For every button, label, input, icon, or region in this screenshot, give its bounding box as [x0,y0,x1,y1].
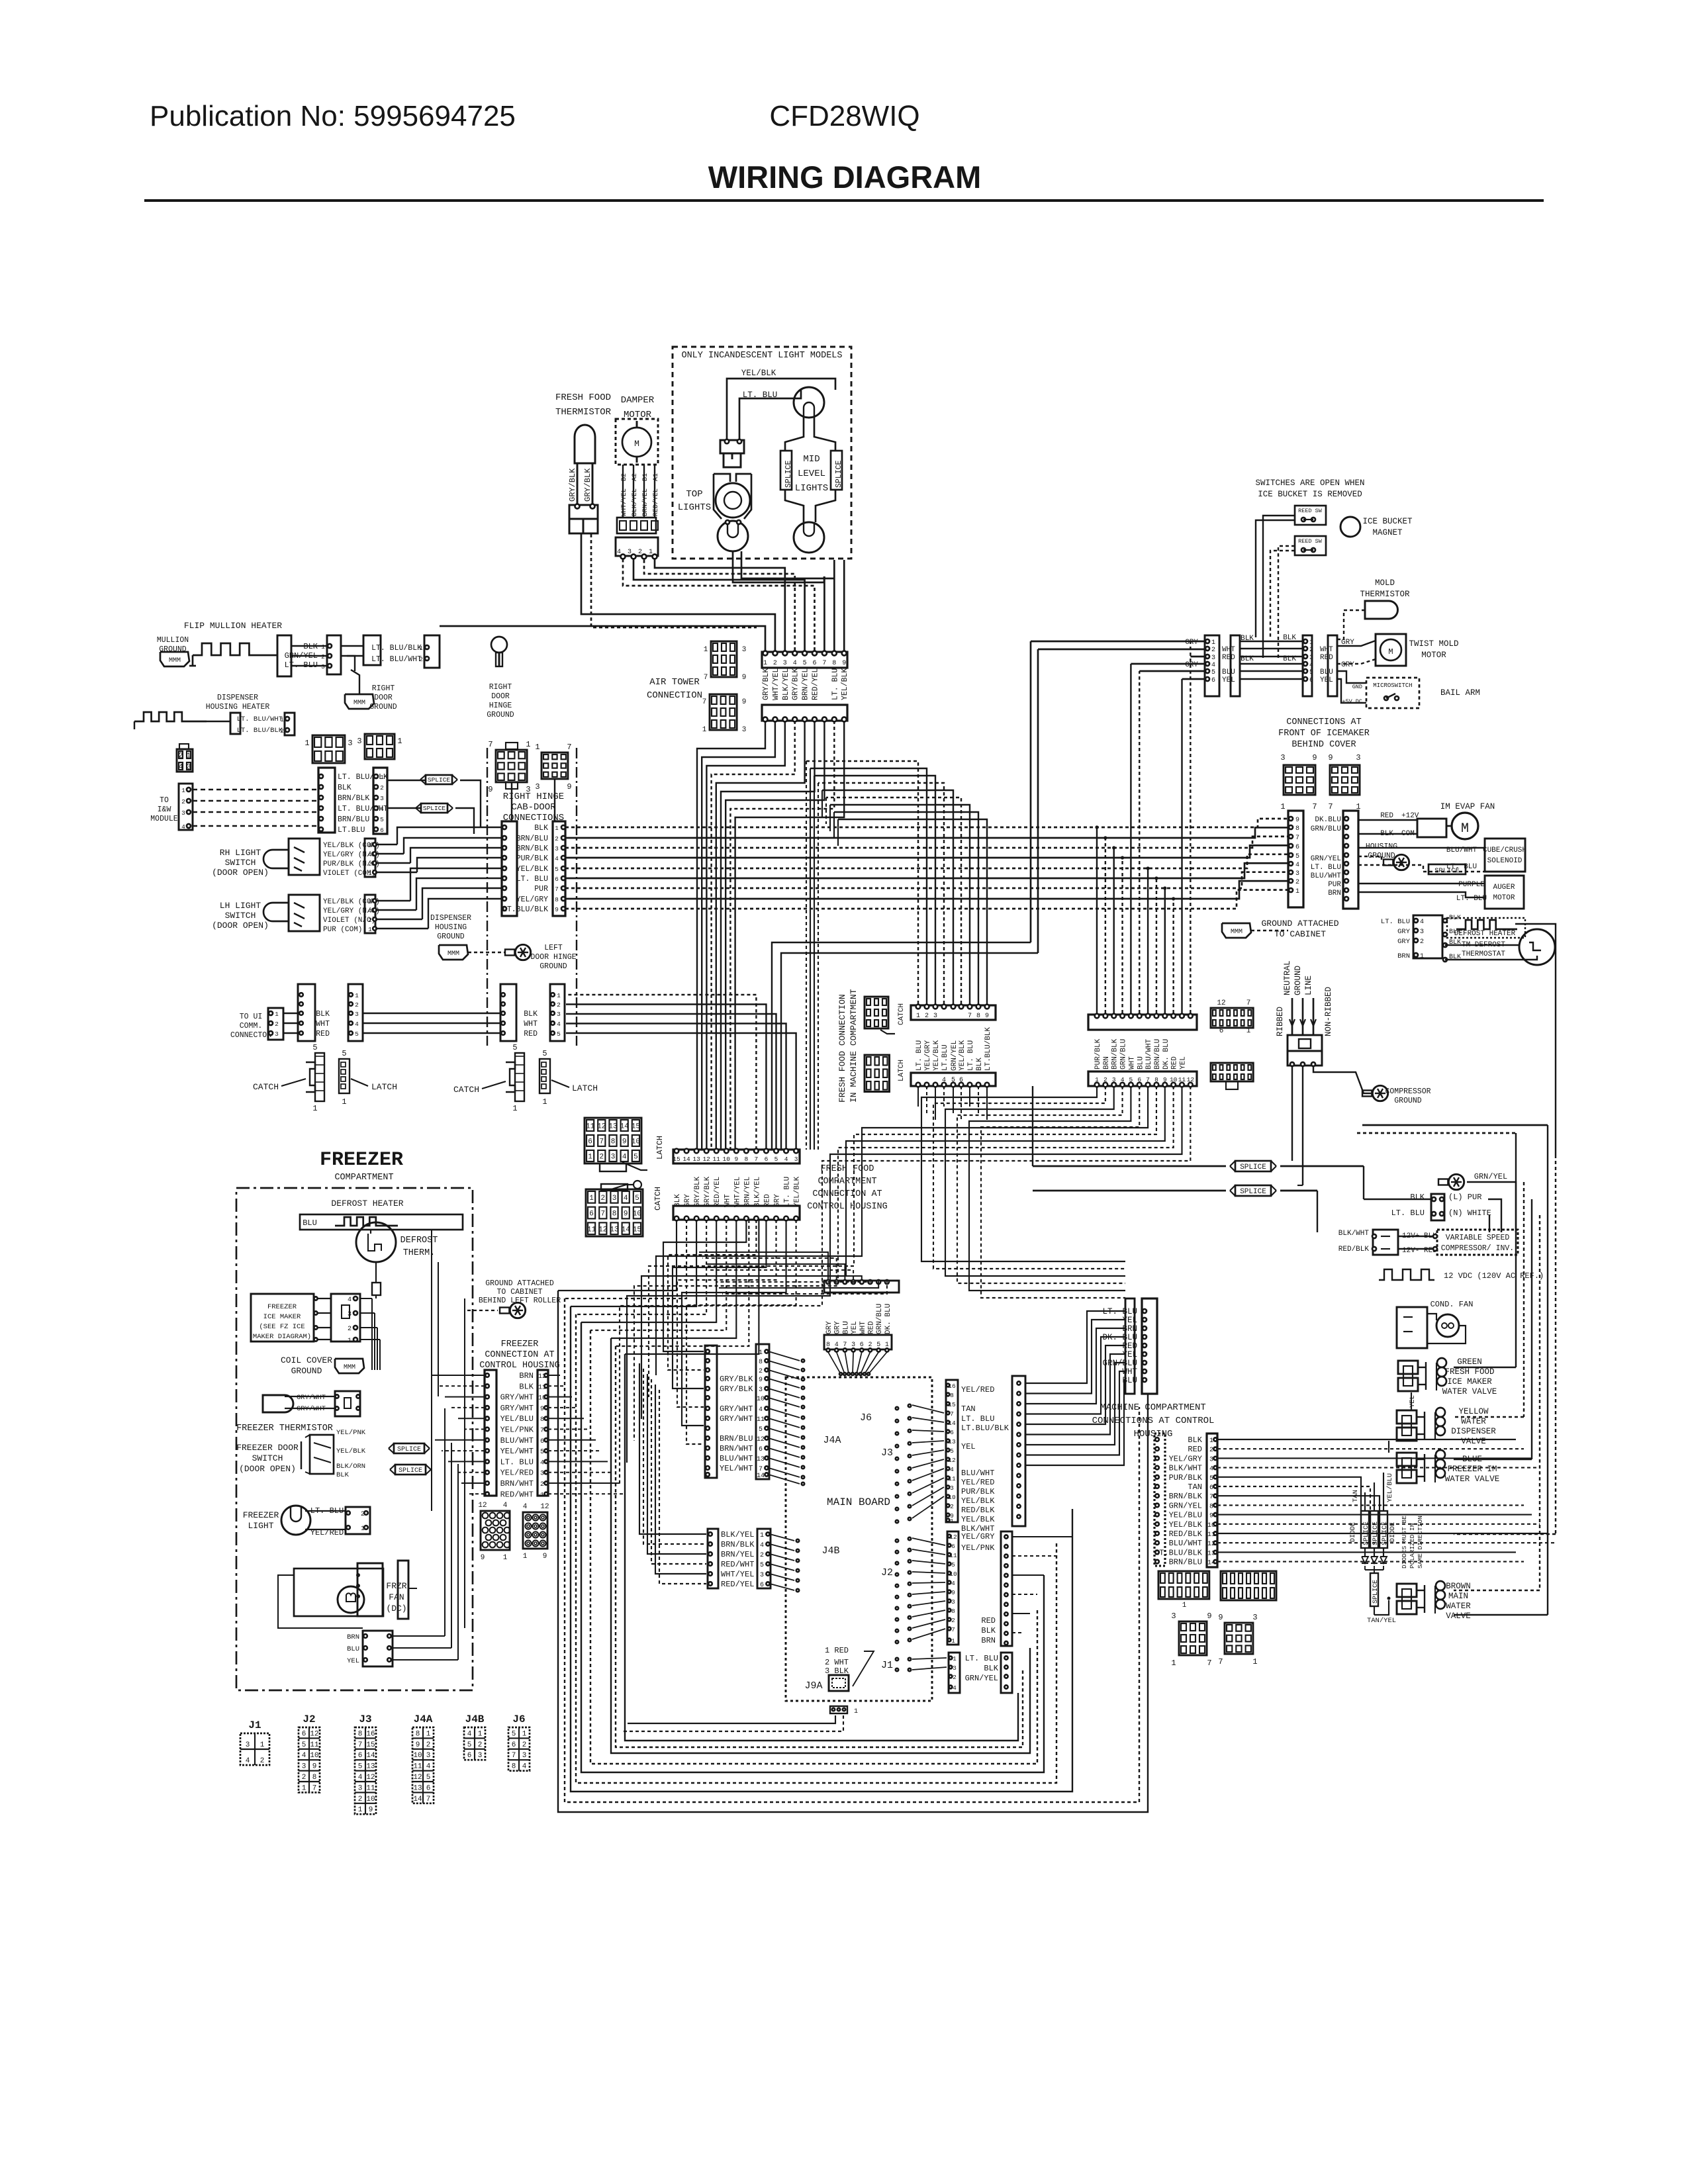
svg-text:9: 9 [1295,817,1299,824]
svg-text:ICE MAKER: ICE MAKER [263,1313,301,1321]
svg-text:6: 6 [512,1741,516,1749]
svg-text:CFD28WIQ: CFD28WIQ [769,100,919,132]
svg-text:RED/YEL: RED/YEL [812,668,820,700]
svg-text:WATER: WATER [1461,1417,1486,1426]
svg-text:CONNECTOR: CONNECTOR [230,1031,271,1040]
svg-text:J4B: J4B [821,1545,839,1557]
svg-text:COMPRESSOR: COMPRESSOR [1385,1087,1430,1096]
svg-text:6: 6 [1211,677,1215,684]
svg-text:(DOOR OPEN): (DOOR OPEN) [212,921,269,931]
svg-text:4: 4 [617,549,621,556]
svg-text:BLK/WHT: BLK/WHT [1338,1230,1370,1238]
svg-text:10: 10 [757,1396,765,1403]
svg-text:M: M [634,439,639,449]
svg-text:CONTROL HOUSING: CONTROL HOUSING [807,1202,888,1212]
svg-text:9: 9 [951,1589,955,1596]
svg-text:GRY/BLK: GRY/BLK [583,468,592,502]
svg-text:FRONT OF ICEMAKER: FRONT OF ICEMAKER [1278,729,1370,739]
svg-text:2: 2 [599,1154,604,1161]
svg-text:BLU/WHT: BLU/WHT [720,1454,753,1463]
svg-text:LT. BLU: LT. BLU [500,1457,534,1467]
svg-text:1: 1 [397,737,402,746]
svg-text:WHT: WHT [1128,1056,1136,1069]
svg-text:3: 3 [357,737,361,746]
svg-text:3: 3 [1209,1456,1213,1463]
svg-text:8: 8 [976,1013,980,1020]
svg-text:7: 7 [1209,1494,1213,1501]
svg-text:1: 1 [302,1784,306,1792]
svg-text:3: 3 [557,1011,561,1018]
svg-text:LT.BLU/BLK: LT.BLU/BLK [502,905,548,914]
svg-text:1: 1 [1182,1602,1187,1610]
svg-text:YEL/BLK: YEL/BLK [933,1040,941,1071]
svg-text:YEL: YEL [961,1442,976,1451]
svg-text:CONNECTIONS AT: CONNECTIONS AT [1286,717,1361,727]
svg-text:9: 9 [985,1013,989,1020]
svg-text:PUR/BLK: PUR/BLK [1169,1473,1203,1482]
svg-text:2: 2 [348,1326,352,1333]
svg-text:1: 1 [1095,1076,1099,1083]
svg-text:RED/BLK: RED/BLK [961,1506,995,1515]
svg-text:RED/BLK: RED/BLK [1169,1529,1203,1539]
svg-text:4: 4 [348,1297,352,1304]
svg-text:J1: J1 [881,1660,893,1671]
svg-text:2: 2 [280,728,283,735]
svg-text:11: 11 [366,1784,375,1792]
svg-text:PUR/BLK: PUR/BLK [516,854,548,863]
svg-text:2: 2 [321,653,325,660]
svg-text:WHT: WHT [524,1020,538,1028]
svg-text:LT. BLU: LT. BLU [831,668,839,700]
svg-text:GRN/YEL: GRN/YEL [951,1040,959,1071]
svg-text:YEL/RED: YEL/RED [961,1478,994,1487]
svg-text:YEL/BLU: YEL/BLU [1169,1511,1202,1520]
svg-text:J4B: J4B [465,1713,485,1725]
svg-text:TO CABINET: TO CABINET [496,1288,542,1297]
svg-text:BLK/YEL: BLK/YEL [753,1177,761,1207]
svg-text:CATCH: CATCH [453,1085,479,1095]
svg-text:12: 12 [478,1502,487,1510]
svg-text:GRY: GRY [1185,661,1198,669]
svg-text:GRY/BLK: GRY/BLK [704,1176,712,1207]
svg-text:GRY/BLK: GRY/BLK [720,1375,753,1384]
svg-text:SPLICE: SPLICE [1434,867,1460,875]
svg-text:2: 2 [950,1503,954,1510]
svg-text:4: 4 [1309,662,1313,669]
svg-text:WHT/YEL: WHT/YEL [620,488,628,516]
svg-text:LEVEL: LEVEL [798,469,825,479]
svg-text:5: 5 [760,1562,764,1569]
svg-text:3: 3 [1112,1076,1116,1083]
svg-text:COND. FAN: COND. FAN [1430,1300,1474,1309]
svg-text:GRN/BLU: GRN/BLU [1311,825,1341,833]
svg-text:AIR TOWER: AIR TOWER [649,677,700,688]
svg-text:BRN/WHT: BRN/WHT [500,1479,534,1488]
svg-text:1: 1 [305,739,309,748]
svg-text:3: 3 [321,663,325,670]
svg-text:RED/WHT: RED/WHT [500,1490,534,1499]
svg-text:4: 4 [1420,919,1424,926]
svg-text:2: 2 [925,1013,929,1020]
svg-text:7: 7 [512,1752,516,1760]
svg-text:YEL/RED: YEL/RED [961,1385,994,1394]
svg-text:4: 4 [1295,862,1299,869]
svg-text:J1: J1 [248,1719,261,1731]
svg-text:5: 5 [358,1763,363,1771]
svg-text:4: 4 [522,1763,527,1771]
svg-text:A2: A2 [632,473,639,481]
svg-text:8: 8 [312,1774,317,1782]
svg-text:3: 3 [1295,870,1299,878]
svg-text:RED: RED [1188,1445,1202,1454]
svg-text:2: 2 [953,1674,957,1681]
svg-text:YEL/BLK: YEL/BLK [961,1496,995,1506]
svg-text:6: 6 [302,1730,306,1738]
svg-text:13: 13 [413,1784,422,1792]
svg-text:YEL/BLK: YEL/BLK [959,1040,966,1071]
svg-text:10: 10 [413,1752,422,1760]
svg-text:5: 5 [1211,669,1215,676]
svg-text:BLU: BLU [1137,1056,1145,1069]
svg-text:2: 2 [1103,1076,1107,1083]
svg-text:SWITCH: SWITCH [225,858,256,868]
svg-text:FREEZER: FREEZER [320,1149,403,1171]
svg-text:4: 4 [953,1684,957,1692]
svg-text:1: 1 [368,926,372,933]
svg-text:YELLOW: YELLOW [1458,1407,1489,1416]
svg-text:GROUND ATTACHED: GROUND ATTACHED [485,1279,554,1288]
svg-text:BRN: BRN [519,1371,534,1381]
svg-text:YEL/PNK: YEL/PNK [500,1426,534,1435]
svg-text:3: 3 [555,845,559,852]
svg-text:GND: GND [1352,684,1362,690]
svg-text:TAN/YEL: TAN/YEL [1367,1617,1396,1625]
svg-text:REED SW: REED SW [1298,508,1323,514]
svg-text:3: 3 [628,549,632,556]
svg-text:2: 2 [1211,647,1215,654]
svg-text:BLK: BLK [976,1058,984,1071]
svg-text:GROUND: GROUND [437,933,465,941]
svg-text:LT. BLU: LT. BLU [965,1654,998,1663]
svg-text:YEL/BLK: YEL/BLK [961,1515,995,1524]
svg-text:2: 2 [260,1757,265,1765]
svg-text:1: 1 [187,752,191,760]
svg-text:3: 3 [181,809,185,817]
svg-text:2: 2 [358,1796,363,1803]
svg-text:WHT: WHT [1222,646,1235,654]
svg-text:VALVE: VALVE [1461,1437,1486,1446]
svg-text:9: 9 [1207,1612,1211,1621]
svg-text:LT. BLU: LT. BLU [1311,864,1341,872]
svg-text:1: 1 [1309,639,1313,647]
svg-text:14: 14 [757,1473,765,1480]
svg-text:LT.BLU: LT.BLU [941,1044,949,1071]
svg-text:RIBBED: RIBBED [1276,1007,1285,1036]
svg-text:AUGER: AUGER [1493,884,1515,891]
svg-text:YEL: YEL [1180,1056,1188,1069]
svg-text:3: 3 [951,1598,955,1606]
svg-text:YEL/BLK: YEL/BLK [336,1447,366,1455]
svg-text:RED: RED [981,1616,996,1625]
svg-text:2: 2 [419,656,423,663]
svg-text:5: 5 [342,1049,346,1058]
svg-text:7: 7 [951,1626,955,1633]
svg-text:1: 1 [1252,1657,1257,1666]
svg-text:LT. BLU: LT. BLU [961,1414,994,1424]
svg-text:WHT: WHT [859,1321,867,1334]
svg-text:GRY/BLK: GRY/BLK [792,668,800,700]
svg-text:12: 12 [366,1774,375,1782]
svg-text:DISPENSER: DISPENSER [217,694,258,702]
svg-text:GRN/YEL: GRN/YEL [1169,1501,1202,1510]
svg-text:GROUND: GROUND [291,1366,322,1376]
svg-text:5: 5 [555,866,559,873]
svg-text:BRN/BLK: BRN/BLK [1169,1492,1203,1501]
svg-text:LATCH: LATCH [371,1082,397,1092]
svg-text:2: 2 [1420,938,1424,946]
svg-text:+5V DC: +5V DC [1342,698,1362,705]
svg-text:7: 7 [1207,1659,1211,1668]
svg-text:BLK/YEL: BLK/YEL [631,488,639,516]
svg-text:FREEZER DOOR: FREEZER DOOR [236,1443,299,1453]
svg-text:VARIABLE SPEED: VARIABLE SPEED [1446,1234,1510,1242]
svg-text:8: 8 [1154,1076,1158,1083]
svg-text:A1: A1 [653,473,660,481]
svg-text:ICE BUCKET: ICE BUCKET [1362,517,1413,526]
svg-text:3: 3 [953,1664,957,1672]
svg-text:HOUSING: HOUSING [435,923,467,932]
svg-text:BLK/YEL: BLK/YEL [782,668,790,700]
svg-text:9: 9 [543,1553,547,1561]
svg-text:GRY: GRY [834,1321,842,1334]
svg-text:GRY/WHT: GRY/WHT [720,1414,753,1424]
svg-text:3: 3 [355,1011,359,1018]
svg-text:FREEZER: FREEZER [501,1340,539,1349]
svg-text:BRN/YEL: BRN/YEL [721,1550,754,1559]
svg-text:SPLICE: SPLICE [428,776,451,784]
svg-text:4: 4 [557,1021,561,1028]
svg-text:YEL/BLU: YEL/BLU [1386,1473,1394,1502]
svg-text:ICE BUCKET IS REMOVED: ICE BUCKET IS REMOVED [1258,490,1362,499]
svg-text:LT. BLU/WHT: LT. BLU/WHT [237,715,283,723]
svg-text:10: 10 [632,1138,640,1146]
svg-text:7: 7 [1328,802,1333,811]
svg-text:BLK: BLK [338,784,352,792]
svg-text:YEL/GRY: YEL/GRY [961,1532,994,1541]
svg-text:13: 13 [608,1123,617,1131]
svg-text:REED SW: REED SW [1298,538,1323,545]
svg-text:GRY: GRY [1397,938,1411,946]
svg-text:FRZR: FRZR [386,1581,406,1591]
svg-text:5: 5 [635,1195,639,1203]
svg-text:J6: J6 [860,1412,872,1424]
svg-text:12: 12 [540,1503,549,1511]
svg-text:1: 1 [588,1154,592,1161]
svg-text:1: 1 [704,646,708,654]
svg-text:LIGHT: LIGHT [248,1521,273,1531]
svg-text:3: 3 [380,795,384,802]
svg-text:MMM: MMM [1231,929,1243,936]
svg-text:14: 14 [413,1796,422,1803]
svg-text:3: 3 [742,646,747,654]
svg-text:FREEZER IM: FREEZER IM [1447,1465,1497,1474]
svg-text:11: 11 [310,1741,319,1749]
svg-text:SPLICE: SPLICE [399,1467,422,1475]
svg-text:GRY: GRY [1185,639,1198,647]
svg-text:Publication No: 5995694725: Publication No: 5995694725 [150,100,516,132]
svg-text:1: 1 [1171,1659,1176,1668]
svg-text:6: 6 [765,1156,769,1163]
svg-text:J4A: J4A [823,1435,841,1446]
svg-text:5: 5 [380,816,384,823]
svg-text:5: 5 [312,1043,317,1052]
svg-text:8: 8 [358,1730,363,1738]
svg-text:4: 4 [302,1752,306,1760]
svg-text:BLK: BLK [519,1382,534,1391]
svg-text:5: 5 [633,1154,638,1161]
svg-text:GREEN: GREEN [1457,1357,1482,1367]
svg-text:9: 9 [555,906,559,913]
svg-text:RED/BLK: RED/BLK [1338,1246,1370,1253]
svg-text:YEL/RED: YEL/RED [500,1469,534,1478]
svg-text:13: 13 [757,1456,765,1463]
svg-text:LT.BLU/BLK: LT.BLU/BLK [984,1027,992,1071]
svg-text:BLK/WHT: BLK/WHT [1169,1464,1202,1473]
svg-text:4: 4 [368,907,372,915]
svg-text:5: 5 [1309,669,1313,676]
svg-text:16: 16 [366,1730,375,1738]
svg-text:8: 8 [540,1416,544,1424]
svg-text:2: 2 [1209,1447,1213,1454]
svg-text:YEL/PNK: YEL/PNK [336,1429,366,1437]
svg-text:1: 1 [523,1553,528,1561]
svg-text:BLK: BLK [316,1010,330,1019]
svg-text:DOOR: DOOR [374,694,393,702]
svg-text:1: 1 [589,1195,594,1203]
svg-text:9: 9 [369,1806,373,1814]
svg-text:10: 10 [1170,1076,1178,1083]
svg-text:WHT: WHT [316,1020,330,1028]
svg-text:4: 4 [1209,1466,1213,1473]
svg-text:3: 3 [348,739,352,748]
svg-text:1: 1 [478,1730,483,1738]
svg-text:DISPENSER: DISPENSER [430,914,471,923]
svg-text:BLU/WHT: BLU/WHT [500,1436,534,1445]
svg-text:6: 6 [358,1752,363,1760]
svg-text:4: 4 [951,1580,955,1587]
svg-text:BLU/WHT: BLU/WHT [961,1469,994,1478]
svg-text:4: 4 [426,1763,431,1771]
svg-text:MMM: MMM [353,700,365,707]
svg-text:RED/YEL: RED/YEL [721,1580,754,1589]
svg-text:7: 7 [312,1784,317,1792]
svg-text:CATCH: CATCH [898,1003,906,1025]
svg-text:GRY: GRY [825,1321,833,1334]
svg-text:4: 4 [467,1730,472,1738]
svg-text:COMPRESSOR/ INV.: COMPRESSOR/ INV. [1441,1244,1514,1253]
svg-text:2: 2 [557,1001,561,1009]
svg-text:4: 4 [793,660,797,667]
svg-text:3: 3 [612,1195,617,1203]
svg-text:1: 1 [950,1518,954,1525]
svg-text:TO: TO [160,796,169,805]
svg-text:3: 3 [1356,753,1360,762]
svg-text:4: 4 [181,823,185,831]
svg-text:9: 9 [759,1377,763,1384]
svg-text:5: 5 [803,660,807,667]
svg-text:7: 7 [950,1410,954,1418]
svg-text:6: 6 [555,876,559,883]
svg-text:12: 12 [597,1123,606,1131]
svg-text:5: 5 [426,1774,431,1782]
svg-text:4: 4 [540,1459,544,1467]
svg-text:1: 1 [358,1806,363,1814]
svg-text:2 WHT: 2 WHT [825,1658,849,1667]
svg-text:1: 1 [702,726,707,734]
svg-text:BLU/WHT: BLU/WHT [1311,872,1342,880]
svg-text:7: 7 [704,674,708,682]
svg-text:BRN/BLK: BRN/BLK [1111,1038,1119,1069]
svg-text:DK. BLU: DK. BLU [1162,1039,1170,1069]
svg-text:7: 7 [358,1741,363,1749]
svg-text:THERM.: THERM. [403,1248,436,1258]
svg-text:BLK: BLK [1188,1435,1202,1445]
svg-text:THERMISTOR: THERMISTOR [1360,590,1410,599]
svg-text:1: 1 [1246,1027,1251,1035]
svg-text:4: 4 [368,851,372,858]
svg-text:RED: RED [1222,654,1235,662]
svg-text:IM EVAP FAN: IM EVAP FAN [1440,802,1495,811]
svg-text:SPLICE: SPLICE [423,805,446,812]
svg-text:CUBE/CRUSH: CUBE/CRUSH [1483,846,1526,854]
svg-text:LATCH: LATCH [655,1136,665,1160]
svg-text:(SEE FZ ICE: (SEE FZ ICE [259,1323,305,1331]
svg-text:6: 6 [950,1429,954,1436]
svg-text:MAKER DIAGRAM): MAKER DIAGRAM) [253,1333,311,1341]
svg-text:9: 9 [481,1554,485,1562]
svg-text:WHT/YEL: WHT/YEL [721,1570,754,1579]
svg-text:FREEZER: FREEZER [243,1510,279,1520]
svg-text:3: 3 [526,785,530,794]
svg-text:1: 1 [535,743,539,752]
svg-text:BRN: BRN [347,1633,359,1641]
svg-text:RED: RED [316,1030,330,1038]
svg-text:RED: RED [1171,1056,1179,1069]
svg-text:MMM: MMM [344,1364,355,1371]
svg-text:7: 7 [1218,1657,1223,1666]
svg-text:I&W: I&W [158,805,171,814]
svg-text:2: 2 [181,798,185,805]
svg-text:8: 8 [1295,825,1299,833]
svg-text:3: 3 [611,1154,616,1161]
svg-text:13: 13 [366,1763,375,1771]
svg-text:HOUSING: HOUSING [1366,842,1397,851]
svg-text:MODULE: MODULE [150,815,178,823]
svg-text:6: 6 [760,1582,764,1589]
svg-text:BRN/BLU: BRN/BLU [338,815,369,824]
svg-text:12: 12 [598,1226,607,1234]
svg-text:GRN/YEL: GRN/YEL [965,1674,998,1683]
svg-text:3: 3 [535,782,539,792]
svg-text:8: 8 [759,1359,763,1366]
svg-text:BRN/YEL: BRN/YEL [641,488,649,516]
svg-text:TAN: TAN [1188,1482,1202,1492]
svg-text:3: 3 [540,1471,544,1478]
svg-text:DEFROST HEATER: DEFROST HEATER [1454,930,1516,938]
svg-text:YEL: YEL [851,1321,859,1334]
svg-text:7: 7 [567,743,571,752]
svg-text:ICE MAKER: ICE MAKER [1447,1377,1492,1387]
